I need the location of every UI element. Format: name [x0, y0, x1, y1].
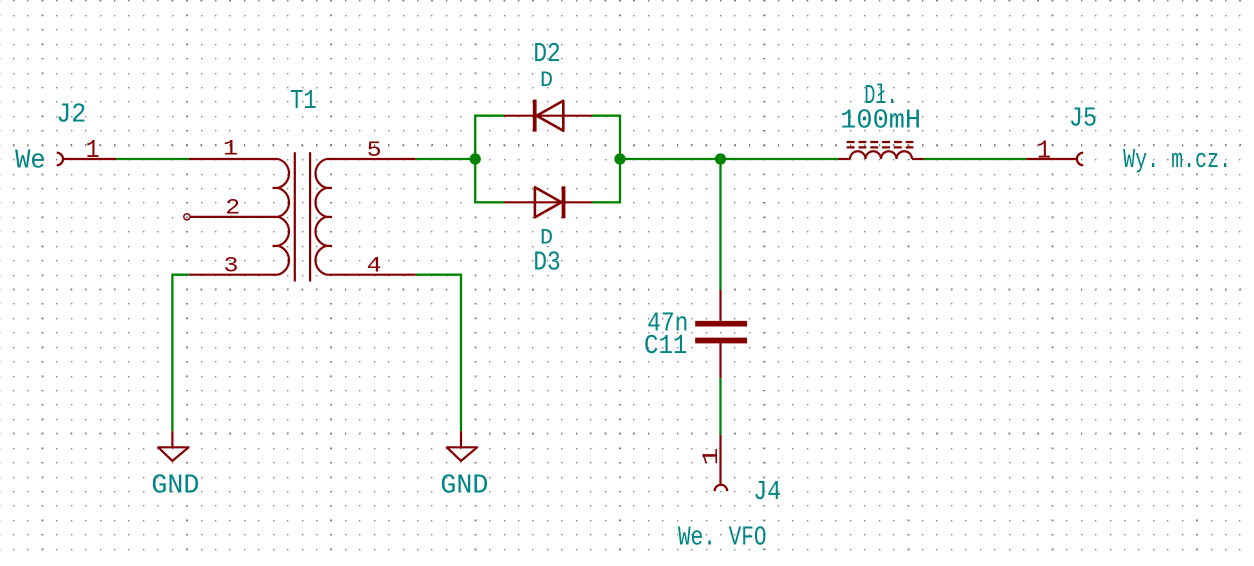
wire node A to D2 anode (upper branch) — [475, 116, 504, 159]
svg-text:Wy. m.cz.: Wy. m.cz. — [1123, 145, 1231, 175]
svg-text:1: 1 — [86, 135, 100, 165]
wire node C to inductor — [721, 158, 839, 160]
wire J2 to T1 pin 1 — [116, 158, 189, 160]
junction node A — [470, 153, 481, 164]
wire inductor to J5 — [924, 158, 1027, 160]
svg-text:T1: T1 — [290, 86, 317, 116]
transformer T1 — [184, 152, 416, 281]
svg-text:GND: GND — [151, 470, 199, 500]
svg-text:3: 3 — [224, 253, 239, 278]
diode D3 — [504, 186, 592, 218]
svg-text:1: 1 — [1037, 136, 1051, 166]
ground symbol right — [447, 431, 477, 461]
svg-text:2: 2 — [225, 196, 240, 221]
junction node B — [614, 153, 625, 164]
svg-text:1: 1 — [698, 448, 724, 466]
svg-text:C11: C11 — [644, 331, 687, 361]
capacitor C11 — [695, 290, 747, 378]
svg-text:100mH: 100mH — [840, 106, 921, 136]
svg-text:We. VFO: We. VFO — [678, 522, 767, 552]
wire D2 cathode to node B (upper branch) — [592, 116, 620, 159]
svg-text:GND: GND — [440, 470, 488, 500]
svg-text:1: 1 — [223, 137, 238, 162]
wire T1 pin 5 to node A — [416, 158, 475, 160]
wire C11 to J4 — [719, 378, 721, 435]
svg-text:We: We — [15, 145, 45, 175]
wire node B to node C — [620, 158, 721, 160]
svg-text:5: 5 — [367, 138, 382, 163]
svg-text:D3: D3 — [533, 247, 560, 277]
inductor Dl. 100mH — [838, 142, 923, 159]
wire node A to D3 anode (lower branch) — [475, 159, 504, 202]
junction node C — [715, 153, 726, 164]
svg-text:D: D — [540, 68, 553, 93]
connector J5 — [1026, 153, 1083, 166]
wire node C to C11 — [719, 159, 721, 290]
wire T1 pin 4 to GND — [416, 275, 461, 431]
wire D3 cathode to node B (lower branch) — [592, 159, 620, 202]
wire T1 pin 3 to GND — [172, 275, 188, 431]
svg-text:4: 4 — [367, 253, 382, 278]
diode D2 — [504, 100, 592, 132]
connector J4 — [715, 435, 728, 491]
connector J2 — [57, 153, 117, 166]
svg-text:J2: J2 — [56, 99, 86, 129]
svg-text:J4: J4 — [753, 477, 781, 507]
svg-text:D2: D2 — [533, 39, 560, 69]
svg-text:J5: J5 — [1069, 103, 1097, 133]
ground symbol left — [158, 431, 188, 461]
